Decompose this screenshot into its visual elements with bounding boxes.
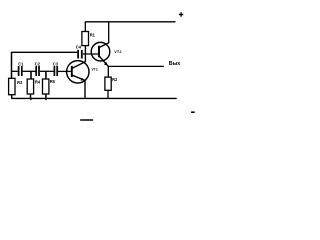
svg-text:С2: С2	[35, 61, 41, 66]
svg-text:VT2: VT2	[114, 50, 121, 54]
wire R2 top lead	[107, 66, 109, 77]
plus terminal	[179, 12, 183, 16]
resistor R4	[27, 79, 33, 94]
wire R1 top lead	[84, 22, 86, 32]
svg-text:С1: С1	[18, 61, 24, 66]
wire bottom rail	[12, 97, 177, 99]
transistor VT1	[67, 61, 89, 83]
svg-text:R5: R5	[50, 79, 56, 84]
wire top supply rail	[85, 21, 176, 23]
svg-text:VT1: VT1	[92, 68, 98, 72]
capacitor C2	[35, 66, 37, 76]
resistor R5	[43, 79, 49, 94]
wire R1 bottom lead / VT1 collector vertical	[84, 46, 86, 62]
svg-text:Вых: Вых	[169, 61, 181, 67]
wire VT1 emitter to ground	[84, 80, 86, 98]
wire left vertical (feedback to chain)	[11, 52, 13, 79]
wire VT2 emitter to output	[108, 65, 164, 67]
wire R3 bottom lead	[11, 95, 13, 99]
wire VT2 collector vertical	[108, 22, 110, 43]
svg-text:R4: R4	[35, 80, 41, 85]
wire RC chain horizontal segments	[12, 70, 18, 72]
wire R2 bottom lead	[107, 90, 109, 98]
resistor R1	[82, 32, 89, 46]
wire feedback left segment	[12, 51, 78, 53]
junction blob R5-rail	[45, 98, 48, 100]
capacitor C4	[77, 50, 79, 59]
capacitor C1	[18, 66, 20, 76]
resistor R2	[105, 77, 111, 90]
svg-text:R1: R1	[90, 33, 96, 38]
wire R4 bottom lead	[30, 94, 32, 98]
wire R5 top lead	[45, 71, 47, 79]
capacitor C3	[53, 66, 55, 76]
transistor VT2	[91, 42, 110, 66]
resistor R3	[9, 78, 15, 94]
svg-text:R3: R3	[17, 80, 23, 85]
wire C4 to VT2 base	[83, 53, 99, 55]
junction blob R4-rail	[30, 98, 33, 100]
wire R5 bottom lead	[45, 94, 47, 98]
caption dash below figure	[80, 119, 93, 121]
wire R4 top lead	[30, 71, 32, 79]
svg-text:С4: С4	[76, 44, 82, 49]
svg-text:С3: С3	[53, 61, 59, 66]
minus terminal	[191, 111, 195, 113]
svg-text:R2: R2	[112, 77, 118, 82]
